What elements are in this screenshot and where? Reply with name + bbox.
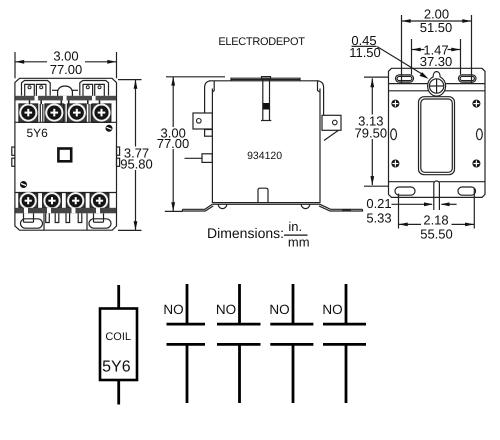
quick-connect tab left [193,113,212,136]
contact 4 bottom lead [345,344,348,403]
svg-text:95.80: 95.80 [120,157,153,172]
dimension 3.13/79.50 (plate height) [355,77,389,186]
dark strip above top terminals [15,96,116,101]
svg-text:5.33: 5.33 [366,210,391,225]
svg-text:934120: 934120 [247,150,282,162]
dimension 3.00/77.00 (top width, front view) [15,49,117,79]
contact 2 bottom plate [217,343,261,346]
body bottom double line [212,203,320,205]
contact 3 bottom plate [270,343,313,346]
top terminal screw block 4 [92,104,111,122]
plate screw bottom-left [391,160,399,168]
top slot right [459,75,477,82]
contact 4 top lead [345,284,348,324]
body main outline (side) [212,89,320,203]
coil top lead wire [117,285,120,309]
svg-text:51.50: 51.50 [420,20,453,35]
svg-text:in.: in. [288,219,302,234]
svg-text:NO: NO [163,302,183,317]
contact 4 top plate [323,323,366,326]
face bottom edge [15,192,117,194]
caption Dimensions: in./mm [207,219,310,250]
bottom terminal screw block 4 [90,193,109,208]
center square [58,149,71,162]
corner screw bottom-left [20,181,27,188]
svg-text:NO: NO [322,302,342,317]
dimension 0.45/11.50 with leader to keyhole [349,33,428,79]
svg-text:77.00: 77.00 [50,62,83,77]
inner step left [212,81,214,92]
contact 2 bottom lead [238,344,241,403]
coil box [100,309,137,381]
corner screw top-right [106,125,113,132]
contact 3 bottom lead [292,344,295,403]
middle hanging blade terminals [46,213,82,222]
right foot with slot [87,213,111,230]
contact 1 bottom lead [186,344,189,403]
dark strip below bottom terminals [15,208,116,214]
cover left edge [205,81,211,113]
plunger cap [262,77,271,80]
base bump left [218,204,227,208]
bottom terminal screw block 1 [19,193,38,208]
top lid plate [231,78,300,81]
stray tick mark left of 0.21 [342,209,351,211]
body shoulder line [209,80,319,82]
svg-text:NO: NO [216,302,236,317]
svg-text:mm: mm [288,235,310,250]
top terminal screw block 2 [45,104,64,122]
side oval left [391,129,397,140]
contact 3 top lead [292,284,295,324]
bottom center tab [258,188,268,202]
svg-text:Dimensions:: Dimensions: [207,225,284,241]
fold line top second [389,90,486,92]
cover right edge [318,81,324,116]
inner step right [318,81,321,92]
contact 2 top plate [217,323,261,326]
dimension 3.77/95.80 (height, front view) [118,80,153,231]
contactor body outline (front) [15,78,117,230]
svg-text:11.50: 11.50 [349,45,381,60]
base bump right [301,204,310,208]
dimension 0.21/5.33 (notch width) [366,196,456,225]
inner rounded rectangle (coil window) [419,97,455,175]
svg-text:37.30: 37.30 [420,54,453,69]
mounting foot right [319,204,363,211]
svg-text:COIL: COIL [105,331,131,343]
left foot with slot [21,213,45,230]
side bumps left [12,147,15,166]
coil bottom lead wire [117,380,120,405]
contact 1 top plate [167,323,206,326]
keyhole with screw [428,72,446,97]
quick-connect tab right [322,115,341,140]
svg-text:5Y6: 5Y6 [102,358,131,375]
dimension 1.47/37.30 (slot spacing) [412,39,461,75]
bottom slot right [458,187,476,195]
svg-text:55.50: 55.50 [420,227,453,242]
dimension 3.00/77.00 (height, side view) [157,77,225,212]
face top edge [15,121,117,123]
contact 1 bottom plate [167,343,206,346]
svg-text:77.00: 77.00 [157,136,190,151]
side bumps right [117,147,120,166]
top cover center dome [52,86,78,99]
blade stems through gap [30,100,100,104]
mounting plate outline [389,68,486,197]
fold line top [389,83,486,85]
contact 1 top lead [186,284,189,324]
dimension 2.18/55.50 (slot span) [399,188,475,242]
contact 2 top lead [238,284,241,324]
contact 4 bottom plate [323,343,366,346]
top cover blade block right [80,81,109,99]
divider lines between top terminal blocks [40,104,91,122]
svg-text:5Y6: 5Y6 [27,126,49,140]
bottom terminal screw block 3 [66,193,85,208]
top slot left [396,75,414,82]
center notch [434,181,440,210]
top cover blade block left [22,81,51,99]
svg-text:2.18: 2.18 [423,213,448,228]
svg-text:79.50: 79.50 [355,125,388,140]
dimension 2.00/51.50 (outer mounting width) [402,6,472,83]
top terminal screw block 3 [68,104,87,122]
bottom terminal screw block 2 [43,193,62,208]
fold line bottom [389,181,486,183]
bottom slot left [395,187,415,195]
svg-text:ELECTRODEPOT: ELECTRODEPOT [218,36,305,48]
plunger rod [261,79,271,120]
mounting foot left [182,204,213,211]
side oval right [477,129,483,140]
contact 3 top plate [270,323,313,326]
plate screw bottom-right [472,160,480,168]
top terminal screw block 1 [19,104,38,122]
plate screw top-right [472,100,480,108]
svg-text:0.21: 0.21 [366,196,391,211]
svg-text:NO: NO [269,302,289,317]
coil wire and lug [185,154,213,163]
plate screw top-left [391,100,399,108]
